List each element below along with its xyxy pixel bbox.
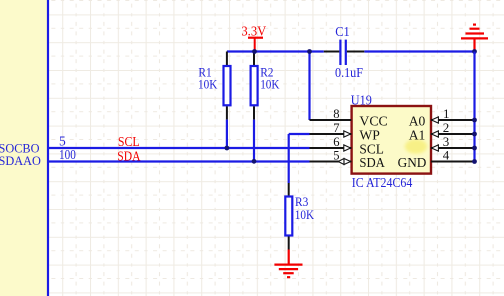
ground bottom xyxy=(274,250,302,278)
pin 7 input triangle xyxy=(344,131,351,137)
pin 4 GND xyxy=(431,161,475,163)
sheet symbol left panel xyxy=(0,0,48,296)
svg-text:A1: A1 xyxy=(409,127,426,142)
junction 3.3V rail / R2 xyxy=(252,49,257,54)
wire VCC drop to pin 8 xyxy=(308,52,310,121)
svg-text:100: 100 xyxy=(59,147,76,162)
wire SCL horizontal xyxy=(49,147,310,149)
svg-text:SDAAO: SDAAO xyxy=(0,154,41,168)
wire R1 to SCL xyxy=(226,120,228,148)
capacitor C1 xyxy=(324,40,365,65)
pin 5 bidirectional triangles xyxy=(338,159,350,165)
junction R1/SCL xyxy=(225,146,230,151)
svg-text:U19: U19 xyxy=(351,92,372,107)
svg-text:10K: 10K xyxy=(295,208,314,222)
svg-text:SDA: SDA xyxy=(117,149,141,164)
svg-text:7: 7 xyxy=(333,121,339,135)
wire right vertical bus xyxy=(473,52,475,162)
pin 2 input triangle xyxy=(432,131,439,137)
svg-text:GND: GND xyxy=(398,155,427,170)
wire WP vertical to R3 xyxy=(288,134,290,183)
svg-text:WP: WP xyxy=(359,127,380,142)
wire R2 to SDA xyxy=(253,120,255,162)
junction R2/SDA xyxy=(252,159,257,164)
svg-text:SDA: SDA xyxy=(359,155,385,170)
junction rail/ground drop xyxy=(472,49,477,54)
svg-text:A0: A0 xyxy=(409,113,426,128)
wire SDA horizontal xyxy=(49,160,310,162)
pin 1 A0 xyxy=(431,119,475,121)
pin 2 A1 xyxy=(431,133,475,135)
pin 6 SCL xyxy=(310,147,352,149)
junction pin2/bus xyxy=(472,132,477,137)
svg-text:3.3V: 3.3V xyxy=(241,24,266,39)
pin 3 A2 xyxy=(431,147,475,149)
svg-text:2: 2 xyxy=(443,120,450,135)
IC U19 body xyxy=(352,106,431,174)
resistor R3 xyxy=(285,183,292,250)
svg-text:10K: 10K xyxy=(260,77,279,91)
svg-text:5: 5 xyxy=(333,149,339,163)
junction rail/VCC drop xyxy=(307,49,312,54)
pin 1 input triangle xyxy=(432,117,439,123)
junction pin1/bus xyxy=(472,118,477,123)
svg-text:4: 4 xyxy=(443,148,450,163)
power port 3.3V xyxy=(241,24,266,51)
svg-text:6: 6 xyxy=(333,135,339,149)
resistor R2 xyxy=(251,52,258,120)
ground top right xyxy=(461,25,488,52)
wire 3.3V rail top xyxy=(227,50,324,52)
svg-text:0.1uF: 0.1uF xyxy=(335,66,363,81)
svg-text:C1: C1 xyxy=(335,25,350,40)
svg-text:10K: 10K xyxy=(198,77,217,91)
svg-text:VCC: VCC xyxy=(359,113,387,128)
pin 8 VCC xyxy=(310,119,352,121)
pin 5 SDA xyxy=(310,161,352,163)
wire rail right of C1 xyxy=(364,50,474,52)
pin 3 input triangle xyxy=(432,145,439,151)
svg-text:IC AT24C64: IC AT24C64 xyxy=(352,176,413,191)
wire WP horizontal xyxy=(289,133,310,135)
pin 6 input triangle xyxy=(344,145,351,151)
svg-text:SCL: SCL xyxy=(118,135,140,150)
svg-text:8: 8 xyxy=(333,107,339,121)
junction pin4/bus xyxy=(472,159,477,164)
pin 7 WP xyxy=(310,133,352,135)
junction pin3/bus xyxy=(472,146,477,151)
svg-text:1: 1 xyxy=(443,106,450,121)
resistor R1 xyxy=(224,52,231,120)
